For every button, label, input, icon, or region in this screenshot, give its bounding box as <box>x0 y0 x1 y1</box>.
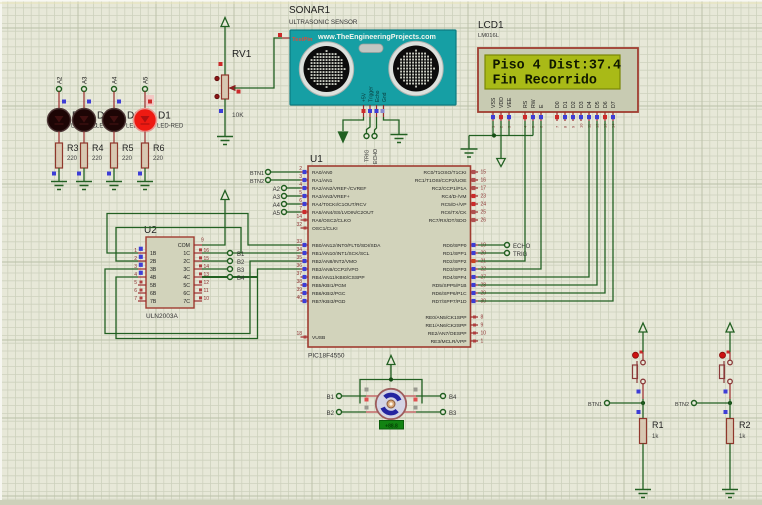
svg-text:23: 23 <box>481 194 487 200</box>
wire <box>416 411 441 413</box>
svg-text:RD1/SPP1: RD1/SPP1 <box>443 251 467 257</box>
pin state square <box>62 100 66 104</box>
wire <box>144 92 146 110</box>
svg-text:RA5/AN4/SS/LVDIN/C2OUT: RA5/AN4/SS/LVDIN/C2OUT <box>312 210 374 216</box>
ic U1 PIC18F4550 body <box>308 166 471 347</box>
pin state square <box>362 109 366 113</box>
svg-text:10: 10 <box>481 331 487 337</box>
svg-text:RE2/AN7/OESPP: RE2/AN7/OESPP <box>428 331 467 337</box>
svg-text:TestPin: TestPin <box>292 37 313 43</box>
svg-text:RD3/SPP3: RD3/SPP3 <box>443 267 467 273</box>
svg-text:RA6/OSC2/CLKO: RA6/OSC2/CLKO <box>312 218 351 224</box>
power +V arrow <box>639 323 647 332</box>
pin state square <box>365 388 369 392</box>
wire <box>144 132 146 144</box>
wire <box>113 92 115 110</box>
pin state square <box>237 90 241 94</box>
wire VSS <box>492 121 494 136</box>
node BTN2 <box>692 401 697 406</box>
svg-text:25: 25 <box>481 210 487 216</box>
pin state square <box>87 100 91 104</box>
U1 pin 27 RD4 <box>471 276 479 278</box>
U2 pin 14 3C <box>194 268 202 270</box>
U2 pin 9 COM <box>194 244 202 246</box>
U2 pin 15 2C <box>194 260 202 262</box>
U1 pin 39 RB6 <box>301 292 309 294</box>
svg-text:RC4/D-/VM: RC4/D-/VM <box>442 194 467 200</box>
svg-text:R6: R6 <box>153 143 165 153</box>
svg-text:2B: 2B <box>150 259 157 265</box>
node A2 <box>57 87 62 92</box>
wire <box>729 444 731 490</box>
U1 pin 10 RE2 <box>471 332 479 334</box>
svg-text:RC1/T1OSI/CCP2/UOE: RC1/T1OSI/CCP2/UOE <box>415 178 467 184</box>
svg-text:COM: COM <box>178 243 190 249</box>
pin <box>642 352 644 361</box>
svg-text:12: 12 <box>204 280 210 286</box>
svg-text:6: 6 <box>134 288 137 294</box>
U2 pin 12 5C <box>194 284 202 286</box>
svg-text:5B: 5B <box>150 283 157 289</box>
svg-text:+5V: +5V <box>362 92 368 102</box>
svg-text:8: 8 <box>481 315 484 321</box>
U1 pin 33 RB0 <box>301 244 309 246</box>
U1 pin 17 RC2 <box>471 187 479 189</box>
wire RD4 to D4 <box>478 121 589 277</box>
pin state square <box>148 100 152 104</box>
U1 pin 34 RB1 <box>301 252 309 254</box>
svg-text:RB6/KBI2/PGC: RB6/KBI2/PGC <box>312 291 346 297</box>
svg-text:A4: A4 <box>113 76 119 84</box>
wire RD6 to D6 <box>478 121 605 293</box>
node A3 <box>282 194 287 199</box>
svg-text:Gnd: Gnd <box>382 92 388 102</box>
svg-text:Trigger: Trigger <box>369 86 375 102</box>
svg-text:9: 9 <box>481 323 484 329</box>
svg-text:D7: D7 <box>611 101 617 108</box>
svg-text:220: 220 <box>92 156 103 162</box>
pin state square <box>219 109 223 113</box>
wire 2C to B2 <box>202 260 227 262</box>
wire RD2 to RS <box>478 121 525 261</box>
push button BTN2 <box>723 361 725 383</box>
LED D4 <box>58 109 60 131</box>
power down arrow <box>339 132 348 142</box>
svg-text:220: 220 <box>67 156 78 162</box>
wire gnd bus <box>469 135 533 137</box>
pin state square <box>278 33 282 37</box>
svg-text:SONAR1: SONAR1 <box>289 5 331 16</box>
wire wiper to TestPin <box>234 38 282 88</box>
ground <box>76 181 92 183</box>
U1 pin 25 RC6 <box>471 211 479 213</box>
ground <box>722 489 738 491</box>
svg-text:7: 7 <box>299 206 302 212</box>
pin state square <box>52 172 56 176</box>
pin state square <box>77 172 81 176</box>
svg-text:D4: D4 <box>587 101 593 108</box>
svg-text:R5: R5 <box>122 143 134 153</box>
svg-text:RC0/T1OSO/T1CKI: RC0/T1OSO/T1CKI <box>424 170 467 176</box>
pin <box>404 411 416 413</box>
svg-text:A4: A4 <box>273 203 281 209</box>
svg-text:ECHO: ECHO <box>513 244 531 250</box>
svg-text:D6: D6 <box>603 101 609 108</box>
node B3 <box>228 267 233 272</box>
U1 pin 36 RB3 <box>301 268 309 270</box>
ground <box>51 181 67 183</box>
svg-text:5C: 5C <box>183 283 190 289</box>
svg-text:LCD1: LCD1 <box>478 20 504 31</box>
wire <box>144 168 146 182</box>
svg-text:D3: D3 <box>579 101 585 108</box>
svg-text:RB0/AN12/INT0/FLT0/SDI/SDA: RB0/AN12/INT0/FLT0/SDI/SDA <box>312 243 381 249</box>
svg-text:RS: RS <box>523 100 529 108</box>
wire <box>83 168 85 182</box>
node BTN1 <box>605 401 610 406</box>
U1 pin 30 RD7 <box>471 300 479 302</box>
pin state square <box>414 388 418 392</box>
power +V arrow <box>726 323 734 332</box>
svg-text:U2: U2 <box>144 225 157 236</box>
svg-text:6C: 6C <box>183 291 190 297</box>
pin <box>376 105 378 117</box>
U1 pin 37 RB4 <box>301 276 309 278</box>
svg-text:RA0/AN0: RA0/AN0 <box>312 170 333 176</box>
pin <box>369 105 371 117</box>
wire <box>697 402 731 404</box>
pin state square <box>414 398 418 402</box>
wire RB1 to B1 <box>233 252 301 254</box>
svg-text:38: 38 <box>296 279 302 285</box>
svg-text:ULTRASONIC SENSOR: ULTRASONIC SENSOR <box>289 19 358 26</box>
svg-text:E: E <box>539 104 545 108</box>
wire +5V <box>343 117 364 131</box>
resistor R5 <box>111 143 118 168</box>
svg-text:RE3/MCLR/VPP: RE3/MCLR/VPP <box>431 339 467 345</box>
node A5 <box>282 210 287 215</box>
svg-text:ULN2003A: ULN2003A <box>146 313 178 320</box>
svg-text:3: 3 <box>299 174 302 180</box>
pin state square <box>414 406 418 410</box>
svg-text:OSC1/CLKI: OSC1/CLKI <box>312 226 338 232</box>
U2 pin 6 6B <box>138 292 146 294</box>
svg-text:A3: A3 <box>273 195 281 201</box>
wire <box>610 402 644 404</box>
LED D1 <box>144 109 146 131</box>
wire RD3 to E <box>478 121 541 269</box>
pin state square <box>637 390 641 394</box>
junction <box>641 401 645 405</box>
U1 pin 6 RA4 <box>301 203 309 205</box>
resistor R2 <box>727 419 734 444</box>
svg-text:1B: 1B <box>150 251 157 257</box>
node TRIG <box>478 252 505 254</box>
junction <box>492 133 496 137</box>
ultrasonic sensor SONAR1 <box>290 30 456 105</box>
push button BTN1 <box>636 361 638 383</box>
svg-text:B3: B3 <box>449 411 457 417</box>
svg-text:Piso 4 Dist:37.4: Piso 4 Dist:37.4 <box>493 59 622 74</box>
stepper motor <box>376 389 406 419</box>
svg-text:3B: 3B <box>150 267 157 273</box>
svg-text:24: 24 <box>481 202 487 208</box>
svg-text:RB2/AN8/INT2/VMO: RB2/AN8/INT2/VMO <box>312 259 357 265</box>
svg-text:32: 32 <box>296 222 302 228</box>
pin state square <box>219 62 223 66</box>
pin <box>366 395 378 397</box>
svg-text:35: 35 <box>296 255 302 261</box>
svg-text:1k: 1k <box>739 434 746 440</box>
U2 pin 7 7B <box>138 300 146 302</box>
pin state square <box>637 410 641 414</box>
svg-text:220: 220 <box>153 156 164 162</box>
svg-text:36: 36 <box>296 263 302 269</box>
resistor R6 <box>142 143 149 168</box>
node ECHO <box>372 134 377 139</box>
U1 pin 4 RA2 <box>301 187 309 189</box>
wire RB1 to 2B <box>116 228 241 262</box>
svg-text:6B: 6B <box>150 291 157 297</box>
svg-text:17: 17 <box>481 186 487 192</box>
wire 3C to B3 <box>202 268 227 270</box>
power down arrow <box>497 159 506 167</box>
svg-text:RV1: RV1 <box>232 49 252 60</box>
U1 pin 21 RD2 <box>471 260 479 262</box>
svg-text:RD6/SPP6/P1C: RD6/SPP6/P1C <box>432 291 467 297</box>
wire <box>58 132 60 144</box>
node B4 <box>228 275 233 280</box>
wire RD7 to D7 <box>478 121 613 301</box>
U1 pin 15 RC0 <box>471 171 479 173</box>
U1 pin 18 VUSB <box>301 336 309 338</box>
wire <box>342 411 367 413</box>
svg-text:2: 2 <box>299 166 302 172</box>
U2 pin 5 5B <box>138 284 146 286</box>
U1 pin 22 RD3 <box>471 268 479 270</box>
svg-text:37: 37 <box>296 271 302 277</box>
wire <box>729 399 731 419</box>
svg-text:U1: U1 <box>310 154 323 165</box>
wire COM to +V <box>202 200 225 245</box>
pin <box>404 395 416 397</box>
wire 4C to B4 <box>202 276 227 278</box>
svg-text:TRIG: TRIG <box>365 150 371 162</box>
node A4 <box>282 202 287 207</box>
wire <box>58 92 60 110</box>
pin state square <box>368 109 372 113</box>
svg-text:PIC18F4550: PIC18F4550 <box>308 353 345 360</box>
svg-text:7C: 7C <box>183 299 190 305</box>
U1 pin 9 RE1 <box>471 324 479 326</box>
svg-text:5: 5 <box>299 190 302 196</box>
svg-text:4C: 4C <box>183 275 190 281</box>
svg-text:RA4/T0CKI/C1OUT/RCV: RA4/T0CKI/C1OUT/RCV <box>312 202 367 208</box>
node BTN2 <box>266 178 271 183</box>
page edge <box>0 0 2 505</box>
svg-text:RB1/AN10/INT1/SCK/SCL: RB1/AN10/INT1/SCK/SCL <box>312 251 370 257</box>
U1 pin 5 RA3 <box>301 195 309 197</box>
U1 pin 35 RB2 <box>301 260 309 262</box>
svg-text:10K: 10K <box>232 112 244 119</box>
svg-text:www.TheEngineeringProjects.com: www.TheEngineeringProjects.com <box>317 32 436 41</box>
ground <box>461 148 478 150</box>
svg-text:3C: 3C <box>183 267 190 273</box>
svg-text:RD2/SPP2: RD2/SPP2 <box>443 259 467 265</box>
LCD display LM016L <box>478 48 638 112</box>
svg-text:A2: A2 <box>273 187 281 193</box>
svg-text:B3: B3 <box>237 268 245 274</box>
wire <box>282 37 290 39</box>
LED D2 <box>113 109 115 131</box>
svg-text:6: 6 <box>299 198 302 204</box>
U1 pin 16 RC1 <box>471 179 479 181</box>
svg-text:2C: 2C <box>183 259 190 265</box>
svg-text:RB3/AN9/CCP2/VPO: RB3/AN9/CCP2/VPO <box>312 267 359 273</box>
ground <box>106 181 122 183</box>
svg-text:40: 40 <box>296 295 302 301</box>
svg-text:33: 33 <box>296 239 302 245</box>
svg-text:D1: D1 <box>563 101 569 108</box>
wire RB0 to 1B <box>107 214 301 254</box>
wire <box>83 92 85 110</box>
node A3 <box>82 87 87 92</box>
U2 pin 10 7C <box>194 300 202 302</box>
wire <box>642 399 644 419</box>
node A4 <box>112 87 117 92</box>
wire VEE <box>508 121 510 136</box>
junction <box>389 377 393 381</box>
resistor R1 <box>640 419 647 444</box>
wire Echo <box>375 117 377 134</box>
ground <box>635 489 651 491</box>
svg-text:RE0/AN5/CK1SPP: RE0/AN5/CK1SPP <box>425 315 466 321</box>
led glow <box>146 95 154 106</box>
svg-text:34: 34 <box>296 247 302 253</box>
wire <box>642 444 644 490</box>
svg-text:220: 220 <box>122 156 133 162</box>
wire <box>113 132 115 144</box>
U2 pin 16 1C <box>194 252 202 254</box>
svg-text:RD5/SPP5/P1B: RD5/SPP5/P1B <box>432 283 466 289</box>
svg-text:RA3/AN3/VREF+: RA3/AN3/VREF+ <box>312 194 350 200</box>
resistor R3 <box>56 143 63 168</box>
pin state square <box>375 109 379 113</box>
pin state square <box>107 172 111 176</box>
pin <box>729 352 731 361</box>
svg-text:R1: R1 <box>652 420 664 430</box>
wire VDD <box>500 121 502 159</box>
svg-text:RB5/KBI1/PGM: RB5/KBI1/PGM <box>312 283 346 289</box>
svg-text:LED-RED: LED-RED <box>157 124 184 130</box>
pin <box>383 105 385 117</box>
U2 pin 11 6C <box>194 292 202 294</box>
svg-text:39: 39 <box>296 287 302 293</box>
wire RW <box>532 121 534 136</box>
ic U2 ULN2003A body <box>146 237 194 308</box>
motor value label <box>380 421 404 430</box>
svg-text:R4: R4 <box>92 143 104 153</box>
svg-text:11: 11 <box>204 288 209 294</box>
svg-text:16: 16 <box>481 178 487 184</box>
svg-text:VDD: VDD <box>499 97 505 108</box>
svg-text:D2: D2 <box>571 101 577 108</box>
U2 pin 3 3B <box>138 268 146 270</box>
svg-text:10: 10 <box>579 123 584 128</box>
junction <box>728 401 732 405</box>
node B1 <box>228 251 233 256</box>
svg-text:18: 18 <box>296 331 302 337</box>
svg-text:26: 26 <box>481 218 487 224</box>
svg-text:B4: B4 <box>237 276 245 282</box>
node B2 <box>228 259 233 264</box>
svg-text:A5: A5 <box>144 76 150 84</box>
svg-text:RC7/RX/DT/SDO: RC7/RX/DT/SDO <box>429 218 467 224</box>
pin <box>729 384 731 399</box>
U2 pin 1 1B <box>138 252 146 254</box>
node BTN1 <box>266 170 271 175</box>
power +V arrow <box>387 356 395 365</box>
pin state square <box>724 410 728 414</box>
node B3 <box>441 410 446 415</box>
svg-text:R3: R3 <box>67 143 79 153</box>
svg-text:ECHO: ECHO <box>373 149 379 164</box>
svg-text:RC2/CCP1/P1A: RC2/CCP1/P1A <box>432 186 468 192</box>
pin <box>642 384 644 399</box>
potentiometer RV1 <box>222 75 229 99</box>
wire RB3 to 4B <box>116 269 301 339</box>
node A5 <box>143 87 148 92</box>
pin <box>363 105 365 117</box>
svg-text:LM016L: LM016L <box>478 33 500 39</box>
svg-text:VUSB: VUSB <box>312 335 325 341</box>
wire B4 bus <box>233 276 258 278</box>
svg-text:B1: B1 <box>237 252 245 258</box>
wire <box>342 395 367 397</box>
U1 pin 40 RB7 <box>301 300 309 302</box>
svg-text:7B: 7B <box>150 299 157 305</box>
U1 pin 26 RC7 <box>471 219 479 221</box>
pin <box>366 411 378 413</box>
wire Gnd <box>384 117 400 134</box>
ground <box>217 136 233 138</box>
U1 pin 8 RE0 <box>471 316 479 318</box>
U2 pin 13 4C <box>194 276 202 278</box>
svg-text:4B: 4B <box>150 275 157 281</box>
svg-text:A3: A3 <box>83 76 89 84</box>
svg-text:1k: 1k <box>652 434 659 440</box>
svg-text:15: 15 <box>481 170 487 176</box>
U1 pin 38 RB5 <box>301 284 309 286</box>
wire RB2 to 3B <box>105 261 301 334</box>
svg-text:A5: A5 <box>273 211 281 217</box>
node B4 <box>441 394 446 399</box>
wire motor frame <box>360 380 422 404</box>
wire <box>58 168 60 182</box>
svg-text:10: 10 <box>204 296 210 302</box>
svg-text:D5: D5 <box>595 101 601 108</box>
U1 pin 2 RA0 <box>301 171 309 173</box>
svg-text:9: 9 <box>201 238 204 244</box>
wire <box>416 395 441 397</box>
svg-text:R2: R2 <box>739 420 751 430</box>
pin state square <box>365 406 369 410</box>
svg-text:Echo: Echo <box>375 90 381 102</box>
svg-text:D0: D0 <box>555 101 561 108</box>
U2 pin 4 4B <box>138 276 146 278</box>
U1 pin 14 RA6 <box>301 219 309 221</box>
LED D3 <box>83 109 85 131</box>
